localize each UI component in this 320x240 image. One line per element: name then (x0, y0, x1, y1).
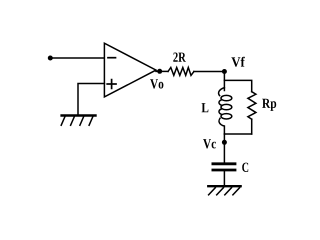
wire op-amp non-inverting input (78, 84, 104, 115)
resistor Rp (248, 92, 256, 120)
ground (below capacitor) (208, 186, 240, 195)
node Vo dot (157, 69, 162, 74)
label Vo (150, 79, 163, 88)
label Vf (231, 57, 245, 67)
label Rp (262, 99, 276, 111)
wire Vf down to branch split (223, 72, 225, 91)
node Vc dot (222, 140, 227, 145)
node input dot (48, 56, 53, 61)
wire input to op-amp inverting input (50, 57, 104, 59)
label Vc (203, 139, 216, 148)
label 2R (173, 53, 186, 62)
wire op-amp output to resistor (156, 70, 168, 72)
wire down to node Vc (223, 134, 225, 163)
ground (op-amp non-inverting input) (61, 116, 95, 126)
label L (202, 103, 209, 112)
wire branch bottom horizontal (224, 133, 251, 135)
label C (242, 163, 248, 172)
wire capacitor to ground (223, 171, 225, 185)
capacitor C (213, 164, 235, 170)
op-amp plus pin label (107, 80, 116, 89)
node Vf dot (222, 69, 227, 74)
resistor 2R (168, 68, 194, 76)
wire branch top horizontal (224, 80, 251, 91)
inductor L (219, 88, 225, 96)
wire resistor to node Vf (194, 71, 225, 73)
op-amp minus pin label (108, 57, 116, 59)
op-amp U1 (104, 43, 156, 97)
wire Rp bottom (251, 119, 253, 134)
